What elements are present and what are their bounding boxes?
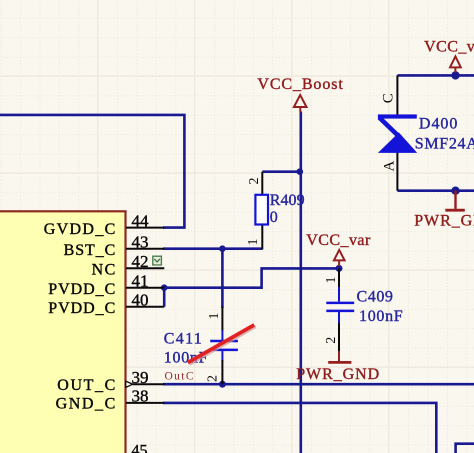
node junction pin43/R409/C411 [219, 245, 226, 252]
anode triangle [378, 133, 417, 153]
svg-text:2: 2 [206, 375, 221, 382]
pin 2 lead [261, 172, 263, 195]
node junction C411/OUT_C [219, 381, 226, 388]
svg-text:PWR_GND: PWR_GND [296, 366, 379, 383]
node junction R409/VCC_Boost [297, 168, 304, 175]
wire diode bottom to PWR_GND right [397, 189, 474, 192]
svg-text:0: 0 [270, 209, 278, 226]
svg-text:2: 2 [324, 337, 339, 344]
svg-text:C411: C411 [164, 330, 202, 347]
svg-text:1: 1 [207, 313, 222, 320]
svg-text:38: 38 [132, 387, 149, 406]
svg-text:VCC_var: VCC_var [306, 232, 371, 249]
anode pin lead [396, 152, 398, 190]
svg-text:SMF24A: SMF24A [415, 136, 474, 153]
IC block body [0, 211, 126, 453]
svg-text:43: 43 [132, 232, 149, 251]
svg-text:PVDD_C: PVDD_C [48, 281, 115, 298]
svg-text:39: 39 [132, 368, 149, 387]
pin 1 lead [221, 307, 223, 331]
wire diode top to VCC_var right [397, 74, 474, 77]
no-ERC marker pin42 (green icon) [153, 256, 162, 266]
node junction VCC_var right [451, 71, 459, 79]
pin 40 PVDD_C [48, 290, 164, 317]
pin 42 NC [92, 252, 165, 279]
svg-text:OutC: OutC [165, 370, 194, 382]
cathode bend stroke [379, 118, 399, 138]
wire VCC_Boost vertical rail [299, 112, 302, 453]
svg-text:VCC_var: VCC_var [424, 39, 474, 56]
node junction PWR_GND right [451, 187, 459, 195]
svg-text:OUT_C: OUT_C [57, 377, 115, 394]
wire pin41 junction down to pin40 [163, 288, 166, 307]
svg-text:40: 40 [132, 290, 149, 309]
svg-text:BST_C: BST_C [64, 242, 116, 259]
wire R409 top to VCC_Boost vertical [262, 170, 300, 173]
svg-text:C: C [381, 93, 397, 103]
pin 38 GND_C [56, 387, 165, 413]
svg-text:44: 44 [132, 211, 150, 230]
pin 41 PVDD_C [48, 271, 164, 298]
svg-text:GVDD_C: GVDD_C [44, 221, 116, 238]
pin 44 GVDD_C [44, 211, 165, 238]
svg-text:1: 1 [324, 277, 339, 284]
plates [210, 340, 238, 343]
svg-text:2: 2 [247, 178, 262, 185]
wire pin43 to R409 bottom [163, 247, 262, 250]
node junction VCC_var/C409 [336, 265, 343, 272]
wire pin41 to VCC_var [163, 268, 339, 287]
node junction pin41/pin40 [161, 284, 168, 291]
wire GND_C net [163, 403, 436, 453]
pin 1 lead [338, 268, 340, 288]
pin 39 OUT_C (output) [57, 368, 164, 394]
svg-text:D400: D400 [419, 115, 458, 132]
wire pin43 junction down to C411 pin1 [221, 249, 224, 308]
svg-text:GND_C: GND_C [56, 396, 116, 413]
svg-text:PVDD_C: PVDD_C [48, 300, 115, 317]
not-fitted red slash over C411 [188, 325, 256, 364]
pin 2 lead [338, 312, 340, 324]
cathode pin lead [396, 75, 398, 114]
svg-text:41: 41 [132, 271, 149, 290]
power port PWR_GND (middle) [296, 351, 379, 383]
wire BST_C top loop: left edge to pin 44 [0, 115, 184, 228]
svg-text:100nF: 100nF [359, 308, 403, 325]
svg-text:1: 1 [246, 239, 261, 246]
svg-text:45: 45 [132, 442, 148, 453]
plates [326, 302, 354, 305]
cathode bar [378, 114, 417, 118]
pin 1 lead [261, 225, 263, 250]
svg-text:VCC_Boost: VCC_Boost [257, 76, 343, 93]
svg-text:PWR_GND: PWR_GND [414, 212, 474, 229]
wire bottom right corner [456, 444, 474, 453]
pin 43 BST_C [64, 232, 165, 259]
svg-text:A: A [382, 161, 398, 172]
pin 2 lead [221, 351, 223, 361]
wire OUT_C net [163, 383, 474, 386]
svg-text:C409: C409 [357, 288, 393, 305]
body [255, 195, 268, 225]
svg-text:42: 42 [132, 252, 149, 271]
svg-text:R409: R409 [270, 192, 305, 209]
